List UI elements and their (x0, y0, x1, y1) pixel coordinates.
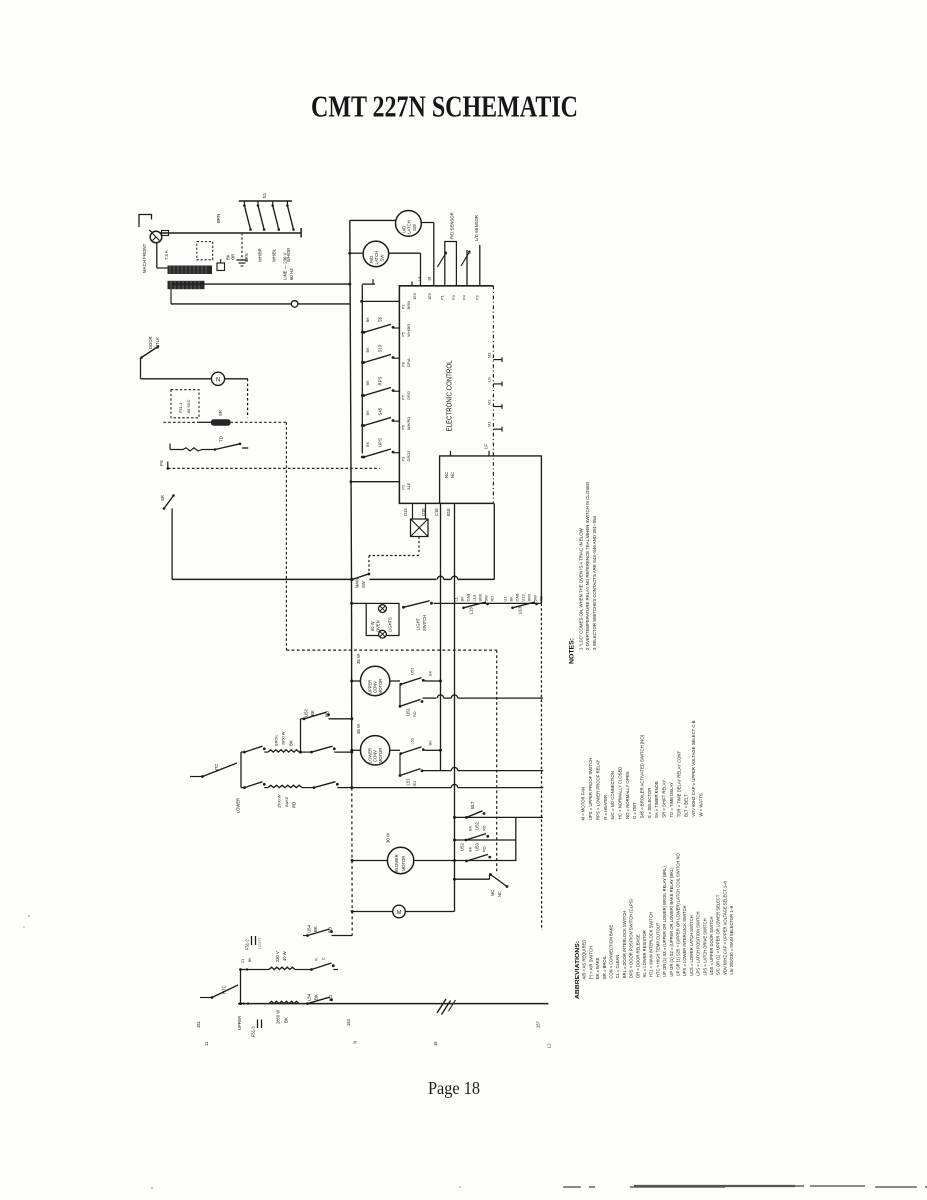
switch U51 upper (399, 683, 402, 686)
svg-text:BAKE: BAKE (284, 796, 289, 807)
control pin P1 wire (362, 300, 400, 302)
svg-text:B1E: B1E (446, 508, 451, 516)
svg-text:U52: U52 (304, 709, 309, 717)
oven lights box 60W (366, 603, 399, 635)
left vertical bus L1 (350, 220, 352, 579)
svg-text:BR = BROIL: BR = BROIL (602, 955, 607, 979)
svg-text:BLT: BLT (470, 801, 475, 809)
wire row y=770 to right (423, 770, 452, 772)
svg-text:HTC: HTC (214, 764, 219, 772)
dashed wire lamp to relay (247, 379, 249, 418)
wire bus to upper conv motor (350, 680, 353, 683)
bake switch right (313, 786, 316, 789)
svg-text:UP OR (1) S2 = (UPPER OR LOW: UP OR (1) S2 = (UPPER OR LOWER) BAKE REL… (669, 867, 674, 977)
fuse F51-3 (257, 1020, 259, 1029)
svg-text:NOTES:: NOTES: (570, 638, 576, 664)
svg-text:HC = NORMALLY CLOSED: HC = NORMALLY CLOSED (617, 767, 622, 820)
svg-text:M2: M2 (486, 400, 491, 405)
svg-text:P6: P6 (401, 425, 406, 430)
svg-text:GRA: GRA (406, 358, 411, 367)
wire junction to bake row (241, 787, 244, 789)
wire R/D latch to control (389, 252, 421, 254)
L/D sensor element (466, 250, 468, 286)
control right pin M2 (493, 406, 502, 408)
switch UPS (363, 456, 366, 459)
svg-text:VDV 60HZ CAP = UPPER VOLTAGE S: VDV 60HZ CAP = UPPER VOLTAGE SELECT 1–8 (722, 880, 727, 974)
svg-text:U51: U51 (409, 668, 414, 675)
svg-text:UPS = LOWER INTERLOCK SWITCH: UPS = LOWER INTERLOCK SWITCH (682, 905, 687, 976)
svg-text:UPPER: UPPER (237, 1016, 242, 1030)
ground symbol (241, 233, 243, 260)
svg-text:F51-1: F51-1 (178, 403, 183, 413)
svg-text:SR: SR (160, 495, 165, 501)
svg-text:1 CU.FT.: 1 CU.FT. (258, 937, 262, 949)
svg-text:36 W: 36 W (356, 653, 361, 664)
svg-text:ORG: ORG (406, 391, 411, 400)
svg-text:40 W: 40 W (282, 951, 287, 961)
wire up to control box corner (493, 503, 495, 579)
dashed pressure switch wire y=468 (167, 467, 170, 470)
svg-text:SR: SR (218, 410, 223, 416)
dashed vertical x=497 (496, 650, 498, 873)
svg-text:BK: BK (284, 1017, 289, 1023)
wire row y=698 to right bus (423, 697, 437, 699)
switch row y=969 right (295, 969, 311, 971)
svg-text:RD: RD (489, 596, 494, 602)
svg-text:P2: P2 (401, 485, 406, 490)
svg-text:SW: SW (532, 595, 537, 602)
relay contact row y=840 (453, 839, 456, 842)
switch L13 (462, 607, 465, 610)
svg-text:S45: S45 (378, 407, 383, 415)
svg-text:WH/BL: WH/BL (271, 248, 276, 262)
svg-text:A/B = AS REQUIRED: A/B = AS REQUIRED (582, 940, 587, 980)
svg-text:BRL = DOOR INTERLOCK SWITCH: BRL = DOOR INTERLOCK SWITCH (622, 911, 627, 978)
svg-text:BRN: BRN (216, 214, 221, 223)
svg-text:U53: U53 (475, 843, 480, 851)
svg-text:BK: BK (365, 441, 370, 447)
svg-text:S/C OR (1) = UPPER OR LOWER SE: S/C OR (1) = UPPER OR LOWER SELECT (716, 894, 721, 975)
svg-text:LIGHTS: LIGHTS (387, 617, 392, 632)
wire bus to R/D latch (348, 252, 351, 255)
svg-text:U51: U51 (406, 708, 411, 716)
svg-text:BLOWER: BLOWER (394, 854, 399, 872)
control pin P7 wire (394, 390, 400, 392)
svg-text:S = SELECTOR: S = SELECTOR (647, 788, 652, 819)
svg-text:LS: LS (486, 377, 491, 382)
svg-text:L/D SENSOR: L/D SENSOR (474, 215, 479, 241)
blower motor row y=860 (351, 859, 354, 862)
svg-text:151: 151 (196, 1020, 201, 1028)
wire secondary top y=284 (172, 283, 350, 285)
HTC thermal switch upper (190, 776, 203, 778)
svg-text:F51-2: F51-2 (244, 939, 249, 950)
S1 switch 1 (243, 201, 245, 206)
svg-text:L51: L51 (406, 778, 411, 786)
control right pin LS (493, 383, 502, 385)
relay coil SR (211, 419, 231, 425)
switch L51 upper (399, 752, 402, 755)
upper convection motor M2 (360, 666, 389, 695)
svg-text:BK: BK (459, 596, 464, 602)
bracket above plug (139, 215, 152, 228)
svg-text:BK: BK (365, 347, 370, 353)
svg-text:D = DET: D = DET (632, 802, 637, 819)
wire motor to switch (390, 680, 400, 682)
svg-text:OR: OR (230, 254, 235, 260)
svg-text:BROIL: BROIL (273, 733, 278, 746)
svg-text:L3: L3 (416, 277, 421, 281)
wire bus to U/D latch (350, 219, 396, 221)
svg-text:M = MOTOR FAN: M = MOTOR FAN (581, 787, 586, 821)
U/D latch switch circle (396, 211, 422, 237)
svg-text:7.5 A: 7.5 A (164, 250, 169, 260)
svg-text:P7: P7 (401, 395, 406, 400)
door lock switch row y=879 (453, 878, 456, 881)
svg-text:P1: P1 (401, 305, 406, 310)
svg-text:153: 153 (346, 1018, 351, 1026)
svg-text:U1: U1 (502, 597, 507, 602)
svg-text:N: N (216, 377, 220, 383)
broil element resistor (268, 750, 299, 752)
svg-text:60 W: 60 W (370, 621, 375, 631)
svg-text:LIGHT: LIGHT (415, 617, 420, 630)
svg-text:W = WATTS: W = WATTS (698, 793, 703, 816)
svg-text:WH/BR: WH/BR (406, 324, 411, 337)
small motor M5 (393, 905, 406, 918)
svg-text:TD: TD (219, 436, 224, 442)
svg-text:DPS = DOOR POSITION SWITCH (CL: DPS = DOOR POSITION SWITCH (CLPS) (629, 899, 634, 978)
light switch (402, 606, 405, 609)
svg-text:RD: RD (412, 781, 417, 787)
fuse symbol on line (162, 231, 169, 236)
relay sub-box U4 (440, 456, 542, 604)
connector plug P1 MACH FRONT (150, 231, 162, 243)
svg-text:SWITCH: SWITCH (422, 615, 427, 631)
svg-text:L13: L13 (471, 595, 476, 602)
svg-text:2500 W: 2500 W (276, 794, 281, 808)
wire to relay coil (198, 421, 211, 423)
svg-text:BRK: BRK (526, 593, 531, 601)
dashed wire lamp to main switch (418, 537, 420, 555)
S1 switch 3 (272, 201, 274, 206)
svg-text:S45 = BROILER ACTIVATED SWITCH: S45 = BROILER ACTIVATED SWITCH (NO) (640, 734, 645, 818)
switch on blower row (465, 860, 468, 863)
wire lamp row y=379 (141, 378, 249, 380)
svg-text:MAIN: MAIN (354, 578, 359, 588)
terminal bar right end (300, 228, 302, 238)
svg-text:2850 W: 2850 W (280, 731, 285, 745)
svg-text:CON = CONVECTION BAKE: CON = CONVECTION BAKE (608, 925, 613, 979)
svg-text:30 W: 30 W (386, 832, 391, 843)
svg-text:TD = TIME DELAY: TD = TIME DELAY (669, 782, 674, 818)
left bus dashed lower part (351, 788, 353, 936)
svg-text:C: C (320, 957, 325, 960)
svg-text:M1: M1 (486, 422, 491, 427)
svg-text:WH/BR: WH/BR (257, 248, 262, 262)
svg-text:RPS = LOWER PROOF RELAY: RPS = LOWER PROOF RELAY (595, 760, 600, 820)
svg-text:WH/RD: WH/RD (406, 417, 411, 430)
svg-text:HTC = HIGH TEMP CUTOUT: HTC = HIGH TEMP CUTOUT (655, 922, 660, 977)
svg-text:1E0: 1E0 (427, 292, 432, 300)
svg-text:NC: NC (444, 472, 449, 478)
break symbol on neutral (437, 999, 451, 1015)
svg-text:SA = TIMER KNOB: SA = TIMER KNOB (654, 781, 659, 818)
relay contact SR-NO (164, 496, 174, 509)
svg-text:BRK: BRK (477, 593, 482, 601)
svg-text:SR = SHIFT RELAY: SR = SHIFT RELAY (662, 780, 667, 818)
svg-text:HT1 = MAIN INTERLOCK SWITCH: HT1 = MAIN INTERLOCK SWITCH (649, 912, 654, 977)
svg-text:MOTOR: MOTOR (401, 856, 406, 871)
transformer T1 secondary winding (168, 281, 205, 289)
svg-text:230 V: 230 V (275, 951, 280, 962)
wire HTC junction to broil row (241, 751, 244, 753)
fuse F51-2 (251, 936, 253, 945)
bottom element resistor (269, 1001, 299, 1003)
svg-text:BK = BAKE: BK = BAKE (595, 958, 600, 980)
wire bus to lower conv motor (350, 749, 353, 752)
HTC thermal switch lower (200, 997, 212, 999)
svg-text:(*) = AIR SWITCH: (*) = AIR SWITCH (588, 946, 593, 979)
dashed timer box TOD-1 (171, 390, 199, 418)
lock motor switch diagonal (489, 873, 492, 876)
svg-text:1 “LDC” COMES ON, WHEN THE: 1 “LDC” COMES ON, WHEN THE OVEN IS A TRI… (578, 527, 583, 650)
svg-text:F51-3: F51-3 (250, 1026, 255, 1037)
thermal delay switch TD (169, 444, 171, 450)
svg-text:P4: P4 (461, 294, 466, 300)
vertical bus B x=454 (454, 503, 456, 911)
wire corner x=300 down (300, 719, 302, 752)
svg-text:P3: P3 (401, 457, 406, 462)
R/D sensor arrow (438, 252, 447, 267)
control pin P6 wire (394, 420, 400, 422)
svg-text:157: 157 (536, 1020, 541, 1028)
svg-text:SW: SW (379, 254, 384, 262)
wire blower to right (414, 860, 517, 862)
svg-text:UDS = UPPER DOOR SWITCH: UDS = UPPER DOOR SWITCH (709, 917, 714, 976)
control right pin M1 (493, 428, 502, 430)
wire U/D latch to control (421, 222, 434, 224)
S1 switch 2 (257, 201, 259, 206)
svg-text:R = HEATER: R = HEATER (603, 795, 608, 820)
svg-text:BK: BK (365, 380, 370, 386)
element resistor 40W (269, 967, 295, 969)
pilot lamp assembly (412, 503, 414, 519)
dashed wire y=650 (286, 649, 496, 651)
broil switch left (243, 751, 246, 754)
wire plug down to transformer (156, 243, 158, 268)
svg-text:HL = LOWER RESISTOR: HL = LOWER RESISTOR (642, 930, 647, 977)
svg-text:RD: RD (481, 846, 486, 852)
svg-text:U13: U13 (520, 594, 525, 601)
svg-text:BK: BK (467, 825, 472, 831)
svg-text:BK: BK (427, 670, 432, 676)
switch column bus (361, 285, 363, 454)
switch BLT (465, 816, 468, 819)
small motor row y=911 (351, 910, 354, 913)
capacitor C1 component (217, 263, 225, 271)
svg-text:PS: PS (159, 460, 164, 466)
svg-text:R: R (313, 958, 318, 961)
svg-text:MOTOR: MOTOR (378, 679, 383, 694)
switch S5 (363, 331, 366, 334)
svg-text:SW: SW (361, 581, 366, 588)
control pin P8 wire (394, 357, 400, 359)
lower convection motor M3 (360, 736, 389, 765)
svg-text:RD: RD (538, 596, 543, 602)
svg-text:18: 18 (426, 277, 431, 281)
transformer T1 primary winding (168, 266, 213, 275)
svg-text:LSI 200/230 = MAIN SELECTOR: LSI 200/230 = MAIN SELECTOR 1–8 (729, 905, 734, 975)
svg-text:P1: P1 (439, 295, 444, 300)
svg-text:BK: BK (365, 317, 370, 323)
indicator lamp L1 (211, 372, 224, 385)
scan specks left margin (28, 915, 30, 917)
svg-text:RPS: RPS (378, 377, 383, 386)
wire vertical x=240 bottom (240, 970, 242, 1004)
svg-text:CAB: CAB (514, 593, 519, 601)
svg-text:CL = CLEAN: CL = CLEAN (615, 955, 620, 979)
S1 switch 4 (286, 201, 288, 206)
svg-text:L1: L1 (453, 597, 458, 601)
svg-text:GRD2: GRD2 (406, 451, 411, 462)
lower contact of U51 (399, 685, 401, 707)
wire small motor to bus B (405, 911, 454, 913)
svg-text:S5: S5 (378, 316, 383, 322)
wire bake row to right bus (337, 787, 352, 789)
svg-text:BK: BK (365, 410, 370, 416)
svg-text:BK: BK (314, 994, 319, 1000)
svg-text:BK: BK (508, 596, 513, 602)
switch bank S1 bus bar (239, 200, 292, 202)
control pin P2 wire (351, 481, 400, 483)
svg-text:SW: SW (412, 223, 417, 231)
vertical bus A x=440 (440, 503, 442, 770)
svg-text:BRN: BRN (244, 253, 249, 262)
svg-text:LPS = LATCH POSITION SWITCH: LPS = LATCH POSITION SWITCH (696, 912, 701, 976)
dashed vertical bus x=286 (285, 422, 287, 650)
row y=969 left marks (239, 968, 242, 971)
svg-text:CAB: CAB (465, 593, 470, 601)
svg-text:HTC: HTC (221, 986, 226, 994)
switch U13 (511, 607, 514, 610)
broil switch right (310, 751, 313, 754)
svg-text:MOTOR: MOTOR (378, 748, 383, 763)
svg-text:UPS = UPPER PROOF SWITCH: UPS = UPPER PROOF SWITCH (588, 758, 593, 820)
svg-text:60 SEC: 60 SEC (186, 399, 191, 413)
bottom row switch (306, 1002, 309, 1005)
interlock switch row y=719 (303, 717, 306, 720)
svg-text:C1E: C1E (434, 508, 439, 516)
svg-text:D13: D13 (403, 508, 408, 516)
svg-text:NC: NC (450, 472, 455, 478)
svg-text:UP OR (1) S3 = (UPPER OR LOW: UP OR (1) S3 = (UPPER OR LOWER) BROIL RE… (662, 866, 667, 977)
R/D sensor element (445, 242, 457, 286)
svg-text:31E: 31E (406, 482, 411, 489)
svg-text:BRN: BRN (406, 301, 411, 309)
L/D sensor arrow (461, 251, 470, 266)
svg-text:LINE — 230 V: LINE — 230 V (283, 252, 288, 280)
svg-text:Page 18: Page 18 (428, 1078, 480, 1098)
svg-text:U13: U13 (518, 606, 523, 614)
oven lamp top (379, 605, 387, 613)
svg-text:LF: LF (484, 444, 489, 449)
wire plug to line bus (149, 230, 153, 233)
svg-text:2850 W: 2850 W (275, 1010, 280, 1024)
bake switch left (243, 786, 246, 789)
svg-text:L13: L13 (469, 607, 474, 615)
svg-text:RD: RD (481, 825, 486, 831)
oven lamp bottom (379, 630, 387, 638)
svg-text:DR = DOOR RELEASE: DR = DOOR RELEASE (635, 934, 640, 978)
svg-text:36 W: 36 W (356, 723, 361, 734)
svg-text:BK: BK (467, 846, 472, 852)
svg-text:1E3: 1E3 (412, 293, 417, 300)
wire secondary bottom y=304 (171, 303, 350, 305)
wire light row to right bus (434, 602, 541, 604)
svg-text:UPS: UPS (378, 438, 383, 447)
switch S13 (363, 361, 366, 364)
wire top line y=233 (161, 232, 302, 234)
wire switch to bus A (425, 680, 441, 682)
svg-text:2 OVERTEMPERATURE RELAY NO: 2 OVERTEMPERATURE RELAY NO REFERENCE TEA… (585, 482, 590, 650)
svg-text:OVEN: OVEN (375, 620, 380, 632)
bake element resistor (268, 785, 302, 787)
svg-text:RD: RD (412, 711, 417, 717)
dashed right bus x=541 (540, 603, 542, 930)
svg-text:S13: S13 (378, 344, 383, 352)
svg-text:L54: L54 (307, 993, 312, 1001)
svg-text:U52: U52 (475, 822, 480, 830)
svg-text:U54: U54 (307, 925, 312, 933)
lower contact of L51 (399, 754, 401, 776)
current sensor loop on wire (291, 301, 298, 308)
svg-text:MC: MC (490, 890, 495, 896)
svg-text:ELECTRONIC CONTROL: ELECTRONIC CONTROL (446, 360, 453, 431)
svg-text:NC: NC (497, 891, 502, 897)
bottom neutral wire y=1003.6 (238, 1003, 548, 1005)
wire vertical x=516 (515, 817, 517, 860)
scan artifact bottom edge line (563, 1186, 927, 1187)
door interlock switch S2 (142, 347, 159, 358)
wire transformer left leg (157, 267, 168, 269)
svg-text:M: M (397, 910, 402, 916)
svg-text:U52: U52 (460, 843, 465, 851)
wire motor to switch lower (390, 749, 400, 751)
R/D latch switch circle (363, 241, 389, 267)
svg-text:15: 15 (433, 1041, 438, 1046)
svg-text:UP OR (1) S25 = (UPPER OR LOW: UP OR (1) S25 = (UPPER OR LOWER) LATCH C… (675, 853, 680, 977)
svg-text:11: 11 (204, 1041, 209, 1046)
svg-text:N/C = NO CONNECTION: N/C = NO CONNECTION (610, 771, 615, 819)
blower motor M4 (387, 847, 413, 873)
svg-text:P8: P8 (401, 362, 406, 367)
svg-text:NO = NORMALLY OPEN: NO = NORMALLY OPEN (625, 772, 630, 819)
svg-text:LOWER: LOWER (235, 798, 240, 813)
svg-text:N: N (352, 1041, 357, 1044)
svg-text:CMT 227N SCHEMATIC: CMT 227N SCHEMATIC (311, 90, 578, 124)
switch RPS (363, 394, 366, 397)
control pin P5 wire (394, 327, 400, 329)
svg-text:BLT = BELT: BLT = BELT (684, 794, 689, 817)
svg-text:TDR = TIME DELAY RELAY CONT: TDR = TIME DELAY RELAY CONT (676, 751, 681, 818)
svg-text:UCS = LOWER LATCH SWITCH: UCS = LOWER LATCH SWITCH (689, 915, 694, 976)
left end marks bottom row (242, 1002, 244, 1004)
main switch (350, 578, 353, 581)
svg-text:3 SELECTOR SWITCHES CONTACT: 3 SELECTOR SWITCHES CONTACTS ARE S43–S46… (592, 515, 597, 650)
svg-text:M3: M3 (486, 353, 491, 358)
electronic control U1 box (399, 286, 493, 504)
